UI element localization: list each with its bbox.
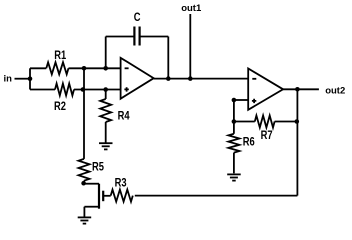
op-amp U2 xyxy=(248,69,283,110)
wire R4 to ground xyxy=(105,122,107,143)
node R6/R7 junction xyxy=(232,119,237,124)
wire R5 bottom stub xyxy=(83,181,85,184)
wire input branch vertical xyxy=(29,68,31,89)
node op-amp2 plus input xyxy=(232,98,237,103)
wire out1 vertical xyxy=(189,14,191,79)
svg-text:C: C xyxy=(134,11,141,24)
wire R2 to op-amp non-inverting input xyxy=(74,89,121,91)
wire transistor source horizontal xyxy=(84,206,99,208)
wire bottom branch to R2 xyxy=(30,89,55,91)
svg-text:R3: R3 xyxy=(115,177,127,190)
resistor R2 xyxy=(55,84,74,96)
resistor R5 xyxy=(79,159,90,181)
wire capacitor right vertical to op-amp output xyxy=(167,37,169,79)
op-amp U1 xyxy=(121,58,154,99)
svg-text:in: in xyxy=(4,74,13,85)
svg-text:R1: R1 xyxy=(54,49,66,62)
node R2 out junction xyxy=(81,87,86,92)
wire op-amp1 output to op-amp2 inverting input xyxy=(154,78,249,80)
resistor R3 xyxy=(111,190,133,202)
transistor Q1 gate bar xyxy=(102,191,104,202)
svg-text:R6: R6 xyxy=(243,135,255,148)
ground below R4 xyxy=(99,142,113,144)
node input junction xyxy=(28,76,33,81)
node cap right / output xyxy=(166,76,171,81)
wire feedback right vertical xyxy=(296,89,298,195)
wire op-amp2 non-inverting lead xyxy=(234,99,248,101)
op-amp U1 plus pin label xyxy=(124,87,128,91)
wire plus input down to R6/R7 node xyxy=(233,100,235,122)
wire node to R7 xyxy=(234,121,255,123)
svg-text:R4: R4 xyxy=(118,109,130,122)
wire capacitor top right xyxy=(140,36,169,38)
svg-text:out1: out1 xyxy=(181,3,202,14)
op-amp U2 minus pin label xyxy=(252,78,256,80)
wire capacitor top left xyxy=(106,36,135,38)
resistor R4 stem xyxy=(105,90,107,100)
wire transistor drain to R5 node xyxy=(83,183,99,185)
wire R7 to output column xyxy=(275,121,297,123)
node R7 right / feedback column xyxy=(295,119,300,124)
resistor R6 stem xyxy=(233,122,235,134)
node out2 junction xyxy=(295,87,300,92)
resistor R7 xyxy=(255,116,275,128)
svg-text:R5: R5 xyxy=(92,161,104,174)
node non-inverting input / R4 top xyxy=(103,87,108,92)
node inverting input / cap left xyxy=(103,66,108,71)
resistor R6 xyxy=(228,134,239,153)
svg-text:R2: R2 xyxy=(54,100,66,113)
svg-text:R7: R7 xyxy=(261,129,273,142)
op-amp U2 plus pin label xyxy=(252,99,256,103)
op-amp U1 minus pin label xyxy=(125,67,129,69)
capacitor C plates xyxy=(134,27,139,46)
wire capacitor left vertical xyxy=(105,37,107,69)
node A (R1 out) xyxy=(82,66,87,71)
wire vertical junction column x=84 down to R5 xyxy=(83,68,85,159)
ground below R6 xyxy=(227,173,241,175)
svg-text:out2: out2 xyxy=(325,85,345,96)
wire transistor gate lead xyxy=(103,195,111,197)
resistor R4 xyxy=(100,99,111,122)
node in (input lead wire) xyxy=(15,78,31,80)
wire top branch to R1 xyxy=(30,67,46,69)
wire op-amp2 output to out2 xyxy=(283,88,319,90)
wire feedback bottom horizontal xyxy=(135,195,298,197)
transistor Q1 channel bar xyxy=(98,184,100,209)
wire R1 to op-amp inverting input xyxy=(69,67,121,69)
wire R6 to ground xyxy=(233,153,235,174)
wire transistor source down xyxy=(83,207,85,217)
node out1 junction xyxy=(188,76,193,81)
ground below transistor xyxy=(78,216,92,218)
resistor R1 xyxy=(46,62,68,74)
node R5 bottom / drain xyxy=(81,181,86,186)
